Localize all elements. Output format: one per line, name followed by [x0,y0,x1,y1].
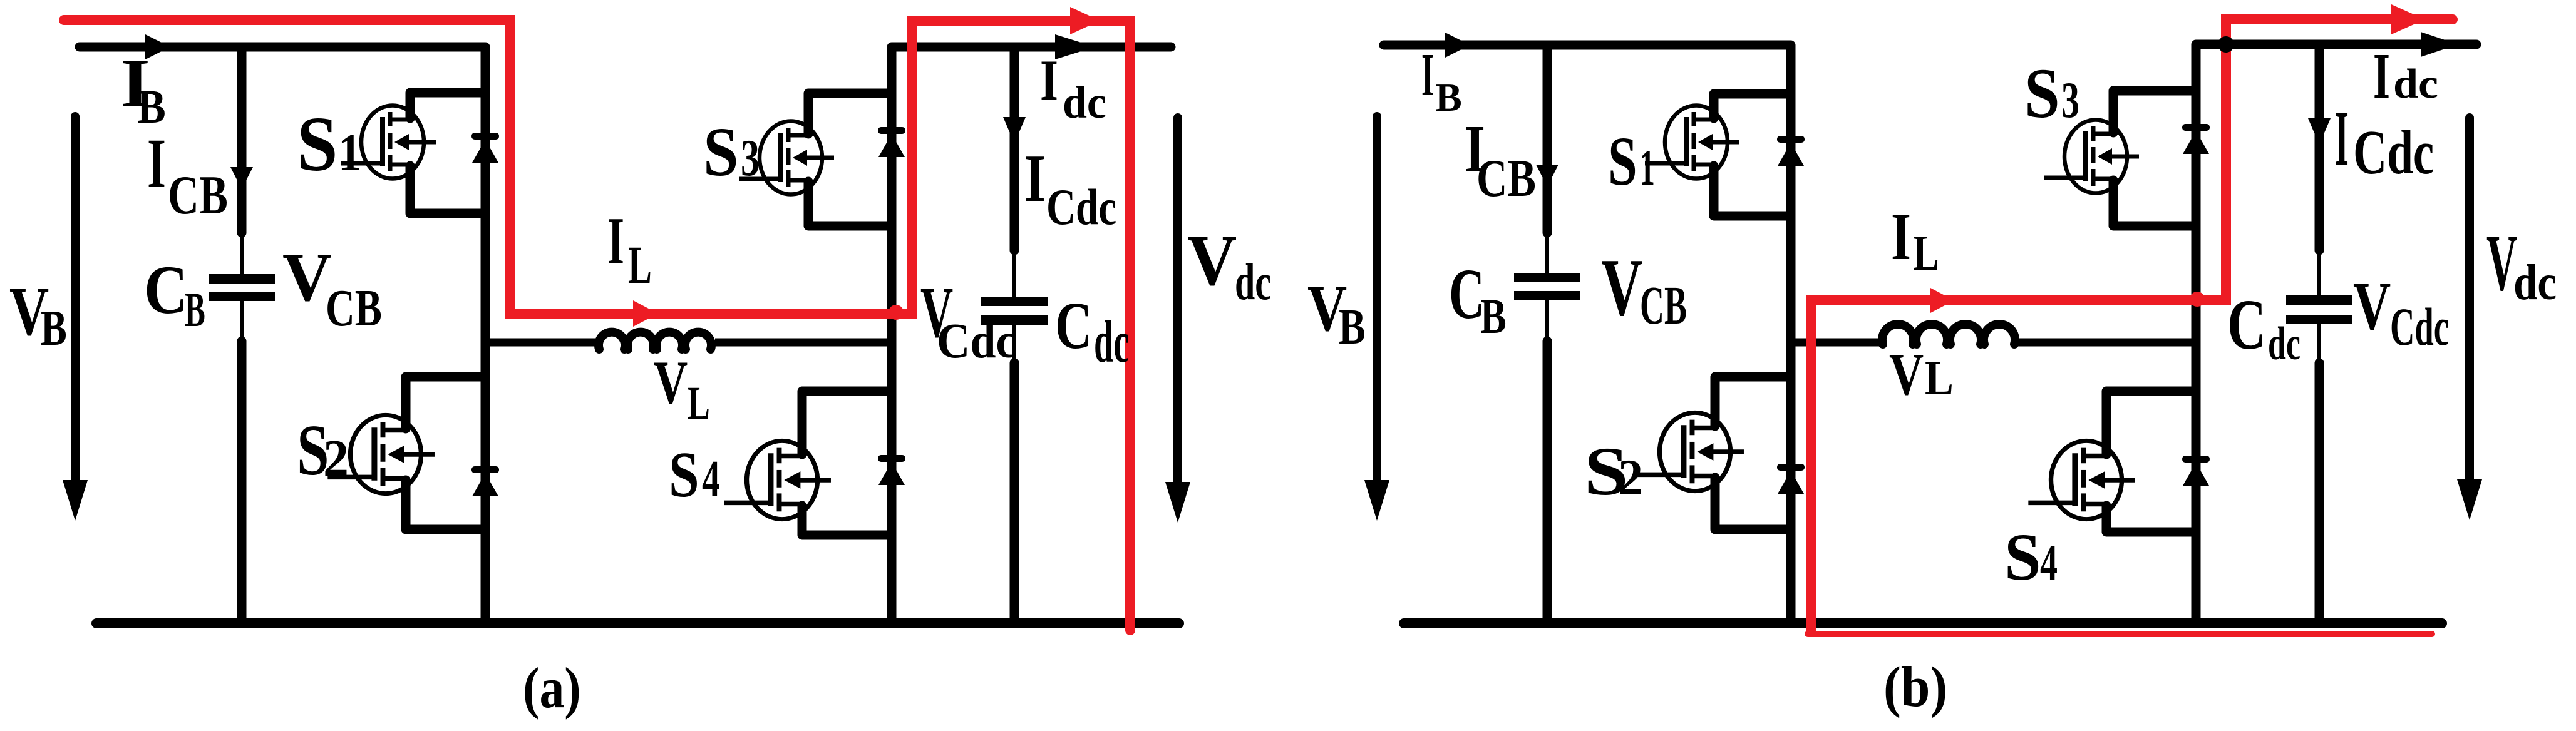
svg-text:dc: dc [1063,78,1106,128]
svg-text:(b): (b) [1883,655,1947,719]
label: S4 (a) [669,438,720,511]
capacitor Cdc (b) [2286,295,2352,305]
diode: body diode of S2 (b) [1777,464,1805,494]
transistor S4 (b) MOSFET symbol [2028,441,2135,519]
wire: switch leg S1/S2 (b) [1786,45,1796,623]
arrow: red current top (a) [1070,7,1100,34]
arrow: red current top (b) [2391,4,2425,34]
transistor S1 (a) MOSFET symbol [341,106,436,179]
wire: S4 (a) source hook [802,506,892,535]
label: VB (b) [1307,272,1366,355]
wire: bottom rail (b) [1404,618,2442,628]
wire: switch leg S3/S4 (a) [887,47,897,623]
svg-text:(a): (a) [523,656,581,720]
label: VB (a) [9,273,67,356]
arrow: ICdc current (a) [1003,117,1026,143]
label: S2 (b) [1584,433,1643,509]
svg-text:V: V [654,349,688,417]
arrow: ICdc current (b) [2308,118,2331,145]
wire: inductor to S3/S4 leg (a) [715,339,892,347]
label: Idc (a) [1040,49,1106,128]
svg-text:V: V [2353,268,2391,345]
svg-text:B: B [1480,289,1507,344]
svg-text:I: I [607,203,624,279]
label: ICdc (b) [2335,95,2434,188]
svg-text:L: L [688,377,710,429]
node: red junction dot (b) [2190,292,2205,307]
svg-text:3: 3 [2061,72,2079,128]
diode: body diode of S2 (a) [471,466,499,496]
label: VCdc (a) [920,272,1016,369]
label: S3 (b) [2024,54,2079,133]
arrow: red current midline (a) [633,300,658,327]
wire: red current path (b) [1811,19,2453,631]
wire: S4 (b) drain hook [2106,391,2196,454]
arrow: Idc current (a) [1055,34,1095,59]
svg-text:Cdc: Cdc [2353,118,2434,187]
svg-text:I: I [2373,40,2390,112]
wire: S3 (b) source hook [2113,180,2196,226]
wire: mid node to inductor (a) [485,339,600,347]
diode: body diode of S3 (a) [878,127,905,157]
node: junction dot on top bus (b) [2218,36,2234,53]
wire: bottom rail (a) [96,618,1179,628]
arrow: VB voltage indicator (a) [71,116,80,485]
arrow: VB voltage indicator (b) [1373,116,1381,485]
svg-text:CB: CB [326,279,382,337]
capacitor Cdc (a) [981,297,1048,306]
label: caption (b) [1883,655,1947,719]
svg-text:I: I [2335,95,2349,181]
capacitor CB (a) [209,274,275,284]
transistor S3 (b) MOSFET symbol [2044,120,2139,193]
svg-text:CB: CB [1640,275,1687,335]
arrow: ICB current (b) [1536,165,1558,187]
svg-text:dc: dc [2393,61,2438,107]
wire: S1 (b) source hook [1714,166,1791,216]
svg-text:4: 4 [2040,534,2058,590]
svg-text:C: C [1449,255,1485,334]
wire: S1 (a) drain hook [410,93,485,118]
svg-text:4: 4 [702,450,720,508]
svg-text:L: L [1913,224,1939,281]
svg-text:S: S [703,114,739,191]
svg-text:I: I [1891,199,1911,273]
arrow: ICB current (a) [230,167,253,189]
svg-text:CB: CB [168,165,228,226]
transistor S2 (b) MOSFET symbol [1637,412,1744,491]
diode: body diode of S4 (b) [2182,456,2210,486]
arrow: red current midline (b) [1930,288,1954,313]
svg-text:V: V [2486,220,2517,308]
arrow: Idc current (b) [2421,32,2458,57]
label: ICdc (a) [1024,141,1116,235]
svg-text:dc: dc [1094,309,1129,375]
label: VCB (b) [1601,242,1687,335]
label: VL (a) [654,349,710,429]
label: IB (a) [120,45,166,133]
svg-text:L: L [628,235,652,295]
svg-text:V: V [1187,220,1237,300]
label: ICB (b) [1465,111,1536,207]
svg-text:S: S [2004,519,2041,594]
svg-text:Cdc: Cdc [937,314,1016,369]
wire: CB (b) lower lead [1545,300,1549,341]
wire: Cdc (b) upper lead [2315,44,2324,250]
svg-text:I: I [1040,49,1058,113]
wire: CB (b) upper lead [1543,45,1552,233]
wire: CB (a) upper lead [237,47,247,233]
label: S2 (a) [297,409,349,490]
node: red junction dot (a) [889,305,904,320]
arrow: IB current (a) [145,34,170,59]
label: Idc (b) [2373,40,2438,112]
svg-text:S: S [1608,123,1637,200]
label: caption (a) [523,656,581,720]
wire: mid node to inductor (b) [1791,339,1883,347]
inductor L (a) [599,332,711,349]
capacitor CB (b) [1514,273,1580,282]
svg-text:2: 2 [323,429,349,487]
label: IL (a) [607,203,652,295]
label: Vdc (b) [2486,220,2557,311]
diode: body diode of S1 (b) [1777,136,1805,166]
inductor L (b) [1882,324,2015,344]
wire: S1 (b) drain hook [1714,94,1791,118]
wire: switch leg S3/S4 (b) [2192,44,2201,623]
diode: body diode of S3 (b) [2182,124,2210,154]
svg-text:B: B [41,299,67,356]
label: Cdc2 (a) [1055,289,1129,375]
wire: top bus right (a), to dc side [892,43,1171,52]
svg-text:3: 3 [741,128,760,187]
label: Cdc2 (b) [2227,284,2300,369]
svg-text:S: S [2024,54,2060,133]
svg-text:CB: CB [1476,148,1536,208]
label: VCB (a) [282,239,382,337]
svg-text:B: B [1339,299,1366,354]
svg-text:Cdc: Cdc [2390,297,2449,357]
label: S1 (a) [297,101,361,188]
svg-text:I: I [1421,41,1434,109]
label: Vdc (a) [1187,220,1271,310]
wire: top bus left (a), battery to S1 leg [80,43,485,52]
wire: S2 (b) drain hook [1715,377,1791,426]
wire: S1 (a) source hook [410,166,485,213]
wire: CB (a) lower lead [240,301,244,341]
wire: switch leg S1/S2 (a) [481,47,490,623]
svg-text:1: 1 [338,123,361,182]
svg-text:dc: dc [2268,318,2300,370]
svg-text:2: 2 [1618,449,1643,506]
wire: S2 (a) source hook [406,480,485,529]
svg-text:dc: dc [2513,255,2557,310]
wire: S3 (b) drain hook [2113,91,2196,133]
wire: Cdc (a) lower lead [1012,325,1016,363]
wire: S2 (b) source hook [1715,478,1791,529]
svg-text:L: L [1925,351,1954,406]
svg-text:I: I [1024,141,1046,216]
wire: S3 (a) source hook [808,181,892,226]
wire: top bus left (b) [1384,41,1791,50]
label: S4 (b) [2004,519,2058,594]
label: S3 (a) [703,114,760,191]
arrow: Vdc voltage indicator (a) [1173,118,1182,485]
svg-text:C: C [144,252,188,329]
svg-text:C: C [1055,289,1092,363]
svg-text:1: 1 [1639,138,1655,196]
svg-text:C: C [2227,284,2266,364]
diode: body diode of S4 (a) [878,455,905,485]
wire: inductor to S3/S4 leg (b) [2018,339,2196,347]
svg-text:B: B [185,284,205,337]
svg-text:S: S [669,438,699,511]
svg-text:dc: dc [1235,253,1271,311]
wire: red current path (a) [64,20,1130,630]
svg-text:V: V [1601,242,1642,333]
transistor S1 (b) MOSFET symbol [1645,106,1739,179]
wire: Cdc (b) lower lead [2317,324,2321,363]
wire: Cdc (a) upper lead [1010,47,1019,250]
label: IL (b) [1891,199,1939,281]
svg-text:V: V [282,239,332,315]
svg-text:B: B [1435,76,1462,120]
wire: S2 (a) drain hook [406,377,485,429]
wire: top bus right (b) [2196,40,2476,49]
label: IB (b) [1421,41,1462,120]
wire: S4 (a) drain hook [802,391,892,454]
svg-text:S: S [297,101,338,188]
svg-text:Cdc: Cdc [1046,179,1116,236]
wire: S4 (b) source hook [2106,506,2196,532]
label: CB (b) [1449,255,1507,344]
diode: body diode of S1 (a) [471,133,499,163]
label: ICB (a) [147,124,228,226]
transistor S2 (a) MOSFET symbol [327,415,435,493]
svg-text:V: V [1889,341,1924,407]
arrow: IB current (b) [1445,33,1470,58]
label: VCdc (b) [2353,268,2449,357]
svg-text:I: I [147,124,166,202]
arrow: Vdc voltage indicator (b) [2465,118,2474,482]
transistor S4 (a) MOSFET symbol [724,441,831,519]
label: CB (a) [144,252,205,337]
transistor S3 (a) MOSFET symbol [739,121,834,195]
label: VL (b) [1889,341,1954,407]
label: S1 (b) [1608,123,1655,200]
wire: red return under bottom rail (b) [1808,631,2432,637]
wire: S3 (a) drain hook [808,93,892,134]
